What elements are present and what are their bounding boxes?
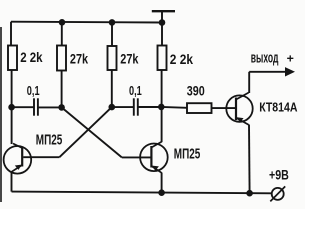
wire Q2 emitter bbox=[161, 173, 163, 193]
arrow Q2 emitter bbox=[152, 166, 159, 171]
junction dot Q2 emitter bbox=[158, 189, 165, 196]
wire Q1 emitter bbox=[11, 172, 13, 192]
wire bottom rail bbox=[12, 192, 272, 194]
arrowhead output bbox=[285, 67, 295, 76]
wire R2 top lead bbox=[61, 22, 63, 45]
node A junction dot bbox=[8, 104, 15, 111]
resistor R1 2.2k bbox=[8, 46, 17, 71]
wire cross link C1 node to Q2 base bbox=[62, 107, 122, 157]
svg-text:390: 390 bbox=[187, 83, 205, 98]
node C junction dot bbox=[109, 104, 116, 111]
common terminal symbol bbox=[152, 11, 175, 22]
wire Q3 emitter bbox=[248, 125, 251, 194]
svg-text:МП25: МП25 bbox=[36, 132, 63, 148]
transistor Q1 MP25 bbox=[4, 144, 32, 174]
capacitor C1 0,1 bbox=[34, 98, 38, 115]
capacitor C2 0,1 bbox=[134, 98, 138, 115]
wire R4 bottom lead bbox=[161, 70, 163, 107]
junction dot R2 top bbox=[59, 19, 66, 26]
wire R1 bottom lead bbox=[11, 70, 13, 107]
resistor R4 2.2k bbox=[158, 46, 167, 71]
wire Q3 collector to output bbox=[248, 72, 250, 93]
wire Q2 base lead bbox=[122, 156, 151, 158]
wire C2 to node D bbox=[138, 106, 162, 108]
resistor R3 27k bbox=[108, 46, 117, 70]
wire R1 top lead bbox=[10, 22, 12, 46]
svg-text:2 2k: 2 2k bbox=[20, 50, 43, 65]
svg-text:КТ814А: КТ814А bbox=[259, 100, 297, 115]
node D junction dot bbox=[158, 104, 165, 111]
svg-text:2 2k: 2 2k bbox=[170, 51, 193, 67]
wire output arrow bbox=[249, 71, 288, 73]
terminal +9V bbox=[270, 186, 285, 201]
svg-text:выход: выход bbox=[251, 51, 279, 67]
resistor R2 27k bbox=[57, 46, 66, 71]
svg-text:МП25: МП25 bbox=[174, 147, 201, 163]
svg-text:27k: 27k bbox=[120, 50, 138, 66]
wire R3 top lead bbox=[111, 22, 113, 46]
scan edge artifact left border bbox=[0, 27, 2, 202]
resistor R5 390 bbox=[187, 103, 212, 113]
node B junction dot bbox=[58, 104, 65, 111]
wire Q2 collector bbox=[161, 107, 163, 142]
arrow Q3 emitter bbox=[237, 117, 244, 122]
wire node C to C2 bbox=[112, 106, 134, 108]
wire R2 bottom lead bbox=[61, 71, 63, 108]
junction dot R4 top bbox=[159, 19, 166, 26]
wire node A to C1 bbox=[12, 106, 34, 108]
wire Q1 collector bbox=[11, 107, 13, 144]
wire node D to R5 bbox=[161, 106, 187, 109]
arrow Q1 emitter bbox=[15, 165, 22, 170]
junction dot R3 top bbox=[109, 19, 116, 26]
svg-text:27k: 27k bbox=[70, 51, 88, 67]
svg-text:0,1: 0,1 bbox=[27, 84, 40, 98]
wire cross link C2 node to Q1 base bbox=[59, 107, 111, 157]
junction dot Q3 emitter bbox=[246, 190, 253, 197]
transistor Q3 KT814A bbox=[226, 93, 252, 125]
transistor Q2 MP25 bbox=[140, 142, 168, 173]
svg-text:0,1: 0,1 bbox=[129, 84, 142, 98]
wire R3 bottom lead bbox=[111, 70, 113, 107]
svg-text:+9В: +9В bbox=[269, 166, 289, 182]
wire Q1 base lead bbox=[23, 156, 59, 158]
svg-text:+: + bbox=[287, 52, 294, 66]
wire top rail bbox=[11, 21, 162, 24]
wire C1 to node B bbox=[38, 106, 62, 108]
wire R4 top lead bbox=[161, 23, 163, 46]
wire R5 to Q3 base bbox=[212, 107, 236, 109]
